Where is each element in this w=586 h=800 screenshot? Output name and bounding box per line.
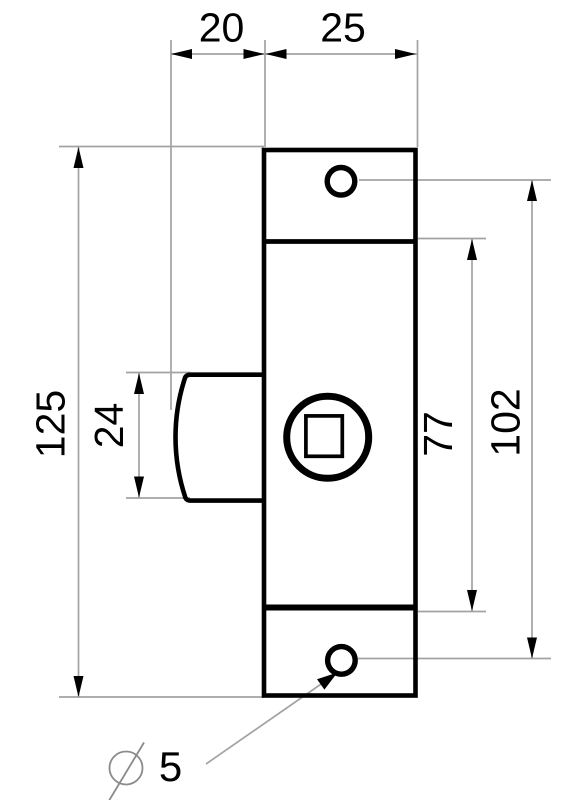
svg-text:5: 5 xyxy=(159,743,182,790)
svg-text:25: 25 xyxy=(320,5,366,51)
dimension line 77 x=472 xyxy=(471,239,473,611)
extension line x=265 (20/25 shared, body left edge) xyxy=(264,40,266,147)
leader line for hole dia 5 xyxy=(206,677,332,765)
arrow 25 left xyxy=(266,49,287,59)
dimension line 24 x=139 xyxy=(138,373,140,498)
leader arrowhead at bottom hole xyxy=(317,673,338,690)
top screw hole xyxy=(327,168,355,196)
bottom screw hole xyxy=(328,647,356,675)
diameter symbol xyxy=(110,752,143,785)
extension line 24 bottom xyxy=(126,497,190,499)
dimension line 125 x=78.5 xyxy=(78,147,80,697)
body divider line upper y=241.5 xyxy=(264,239,416,244)
arrow 20 left xyxy=(171,49,192,59)
svg-text:20: 20 xyxy=(199,5,245,51)
arrow 125 bottom xyxy=(74,676,84,697)
arrow 20 right xyxy=(244,49,265,59)
extension line top hole center y=180 xyxy=(359,179,551,181)
arrow 77 bottom xyxy=(467,590,477,611)
arrow 24 top xyxy=(134,373,144,394)
extension line 125 bottom y=697 xyxy=(59,696,264,698)
arrow 25 right xyxy=(395,49,416,59)
arrow 24 bottom xyxy=(134,477,144,498)
dimension line 20+25 y=54 xyxy=(171,53,418,55)
arrow 102 top xyxy=(527,180,537,201)
svg-text:125: 125 xyxy=(28,390,74,458)
extension line 77 top xyxy=(418,238,486,240)
svg-text:77: 77 xyxy=(415,411,461,457)
body divider line lower y=607.5 xyxy=(264,605,416,611)
lock body outline xyxy=(264,150,416,696)
arrow 77 top xyxy=(467,239,477,260)
svg-text:102: 102 xyxy=(483,388,529,456)
extension line x=417.5 (25 right, body right edge) xyxy=(417,40,419,147)
extension line 125 top y=147 xyxy=(59,146,264,148)
extension line bottom hole center y=659 xyxy=(358,658,551,660)
dimension line 102 x=532 xyxy=(531,180,533,659)
arrow 102 bottom xyxy=(527,638,537,659)
svg-text:24: 24 xyxy=(86,403,132,449)
spindle circle xyxy=(287,396,369,478)
arrow 125 top xyxy=(74,147,84,168)
extension line 24 top xyxy=(126,372,190,374)
extension line 77 bottom xyxy=(418,611,486,613)
spindle square hole xyxy=(306,416,342,456)
extension line x=171 (20 left / latch tip) xyxy=(170,40,172,410)
latch bolt (curved protrusion left of body) xyxy=(176,375,264,501)
